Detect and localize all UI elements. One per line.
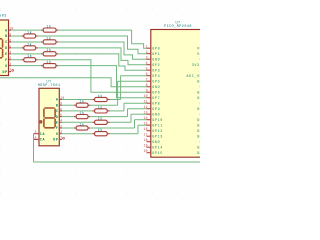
svg-text:GP5: GP5 <box>152 80 160 84</box>
U3 right pin 28 (GND, clipped) <box>200 113 208 117</box>
wire: vertical drop to pico pin 11 <box>123 103 125 111</box>
U3 right pin 23 (GND, clipped) <box>200 141 208 145</box>
U3 right pin 37 (3V3_EN, clipped) <box>192 64 208 68</box>
U3 right pin 21 (GP16, clipped) <box>197 152 208 156</box>
wire: into pico pin 13 <box>131 113 147 115</box>
U3 right pin 29 (GP22, clipped) <box>197 108 208 112</box>
U3 right pin 32 (GP27, clipped) <box>197 91 208 95</box>
U2 seven-segment digit graphic <box>40 108 55 128</box>
svg-text:GP8: GP8 <box>152 102 160 106</box>
U3 right pin 30 (RUN, clipped) <box>200 102 208 106</box>
svg-text:ADC_VREF: ADC_VREF <box>186 75 200 79</box>
svg-text:11: 11 <box>144 100 148 104</box>
wire: R to pico pin 9 (long drop) <box>38 60 147 92</box>
svg-text:6: 6 <box>146 72 148 76</box>
svg-text:1k: 1k <box>46 60 51 65</box>
U3 right pin 40 (VBUS, clipped) <box>197 47 208 51</box>
svg-text:G: G <box>56 132 59 136</box>
svg-text:PICO_RP2040: PICO_RP2040 <box>164 25 192 29</box>
U3 right pin 35 (ADC_VREF, clipped) <box>186 75 207 79</box>
svg-text:GP22: GP22 <box>197 108 200 112</box>
U2 pin F (pin 2) <box>56 124 62 130</box>
wire: R to pico pin 10 (long drop) <box>58 66 146 98</box>
U3 left pin 16 (GP12) <box>144 127 163 134</box>
wire: R to bend, segment b <box>110 121 132 123</box>
svg-text:CA: CA <box>40 138 45 142</box>
svg-text:GP16: GP16 <box>197 152 200 156</box>
svg-text:7: 7 <box>60 136 62 140</box>
svg-text:GP14: GP14 <box>152 146 163 150</box>
svg-text:DP: DP <box>53 138 58 142</box>
wire: R to pico pin 4 (zigzag) <box>38 48 147 65</box>
U3 left pin 12 (GP9) <box>144 105 161 112</box>
wire: U2 seg C to R, segment a <box>62 110 92 112</box>
resistor R3 (1k, segment C) <box>41 36 58 44</box>
resistor R10 (1k, segment D) <box>74 111 90 119</box>
U1 seven-segment digit graphic <box>0 39 3 58</box>
svg-text:1k: 1k <box>46 25 51 30</box>
U3 left pin 1 (GP0) <box>146 45 161 52</box>
wire: vertical drop to pico pin 15 <box>137 125 139 134</box>
U2 common-anode pin CA2 (pin 8) <box>34 136 46 142</box>
wire: R to pico pin 1 (zigzag) <box>58 30 146 48</box>
resistor R12 (1k, segment E) <box>92 117 109 125</box>
wire: U1 seg E to R, segment a <box>11 53 41 55</box>
svg-text:GP0: GP0 <box>152 47 160 51</box>
svg-text:GP13: GP13 <box>152 135 163 139</box>
U3 right pin 31 (GP26, clipped) <box>197 97 208 101</box>
wire: R to bend, segment b <box>110 99 121 101</box>
U3 right pin 33 (GND, clipped) <box>200 86 208 90</box>
svg-text:2: 2 <box>146 50 148 54</box>
svg-text:GP19: GP19 <box>197 130 200 134</box>
svg-text:1: 1 <box>146 45 148 49</box>
U3 right pin 39 (VSYS, clipped) <box>197 53 208 57</box>
wire: R to pico pin 3 (zigzag) <box>58 42 146 59</box>
wire: R to bend, segment b <box>90 104 117 106</box>
svg-text:1k: 1k <box>98 128 103 133</box>
wire: U2 seg A to R, segment a <box>62 99 92 101</box>
U1 pin DP (pin 7) <box>2 68 13 74</box>
svg-text:GP4: GP4 <box>152 75 160 79</box>
svg-text:3V3_EN: 3V3_EN <box>192 64 200 68</box>
U3 left pin 4 (GP2) <box>146 61 161 68</box>
U3 left pin 8 (GND) <box>146 83 161 90</box>
U3 left pin 14 (GP10) <box>144 116 163 123</box>
svg-text:E: E <box>5 52 8 56</box>
svg-text:10: 10 <box>144 94 148 98</box>
U2 pin DP (pin 7) <box>53 136 64 142</box>
resistor R2 (1k, segment B) <box>22 30 38 38</box>
resistor R3 (1k, segment D) <box>22 42 38 50</box>
U3 left pin 2 (GP1) <box>146 50 161 57</box>
svg-text:GP1: GP1 <box>152 53 160 57</box>
wire: U1 seg G to R, segment a <box>11 65 41 67</box>
svg-text:F: F <box>56 126 59 130</box>
U3 right pin 24 (GP18, clipped) <box>197 135 208 139</box>
wire: into pico pin 15 <box>138 124 147 126</box>
resistor R11 (1k, segment F) <box>74 122 90 130</box>
svg-text:13: 13 <box>144 111 148 115</box>
U3 right pin 38 (GND, clipped) <box>200 58 208 62</box>
svg-text:GP11: GP11 <box>152 124 163 128</box>
U1 pin G (pin 3) <box>5 62 11 68</box>
wire: into pico pin 14 <box>135 119 147 121</box>
resistor R10 (1k, segment C) <box>92 105 109 113</box>
svg-text:GP2: GP2 <box>152 64 160 68</box>
svg-text:GP7: GP7 <box>152 97 160 101</box>
U3 left pin 9 (GP6) <box>146 89 161 96</box>
svg-text:1k: 1k <box>27 30 32 35</box>
resistor R9 (1k, segment B) <box>74 100 90 108</box>
7-segment display U1 (HDSP-7503, clipped at left edge) <box>0 20 9 76</box>
U2 pin C (pin 8) <box>56 107 62 113</box>
svg-text:GP15: GP15 <box>152 152 163 156</box>
svg-text:5: 5 <box>146 67 148 71</box>
svg-text:GND: GND <box>152 58 160 62</box>
U2 common-anode pin CA1 (pin 3) <box>34 130 46 136</box>
U3 left pin 17 (GP13) <box>144 133 163 140</box>
wire: R to bend, segment b <box>90 127 134 129</box>
wire: vertical drop to pico pin 12 <box>127 109 129 117</box>
svg-text:1k: 1k <box>79 122 84 127</box>
resistor R7 (1k, segment G) <box>41 60 58 68</box>
svg-text:CA: CA <box>40 132 45 136</box>
wire: U1 seg B to R, segment a <box>11 35 21 37</box>
wire: U1 seg F to R, segment a <box>11 59 21 61</box>
U1 pin F (pin 2) <box>5 56 11 62</box>
U3 right pin 25 (GP19, clipped) <box>197 130 208 134</box>
U2 pin D (pin 5) <box>56 113 62 119</box>
svg-text:D: D <box>5 46 8 50</box>
U3 left pin 6 (GP4) <box>146 72 161 79</box>
wire: U1 seg A to R, segment a <box>11 29 41 31</box>
wire: U1 common cathode rail to pico GND pin 8 <box>0 78 147 87</box>
svg-text:GP12: GP12 <box>152 130 163 134</box>
U3 left pin 19 (GP14) <box>144 144 163 151</box>
svg-text:GP18: GP18 <box>197 135 200 139</box>
svg-text:E: E <box>56 121 59 125</box>
wire: into pico pin 12 <box>128 108 147 110</box>
svg-text:12: 12 <box>144 105 148 109</box>
U3 left pin 18 (GND) <box>144 138 161 145</box>
wire: U2 seg F to R, segment a <box>62 127 74 129</box>
svg-text:GP9: GP9 <box>152 108 160 112</box>
svg-text:3: 3 <box>146 56 148 60</box>
U2 pin G (pin 3) <box>56 130 62 136</box>
svg-text:1k: 1k <box>98 105 103 110</box>
wire: vertical drop to pico pin 6 <box>120 76 122 100</box>
svg-text:9: 9 <box>146 89 148 93</box>
svg-text:F: F <box>5 58 8 62</box>
svg-text:1k: 1k <box>98 117 103 122</box>
svg-text:GP27: GP27 <box>197 91 200 95</box>
resistor R4 (1k, segment F) <box>22 54 38 62</box>
wire: U2 seg G to R, segment a <box>62 133 92 135</box>
U2 pin E (pin 4) <box>56 119 62 125</box>
svg-text:1k: 1k <box>46 48 51 53</box>
resistor R14 (1k, segment G) <box>92 128 109 136</box>
svg-text:GP21: GP21 <box>197 119 200 123</box>
U1 pin B (pin 9) <box>5 32 11 38</box>
svg-text:19: 19 <box>144 144 148 148</box>
wire: R to bend, segment b <box>110 133 139 135</box>
svg-text:B: B <box>5 34 8 38</box>
svg-text:1k: 1k <box>27 54 32 59</box>
microcontroller module U3 (PICO_RP2040) <box>151 30 204 158</box>
svg-text:1k: 1k <box>46 36 51 41</box>
U2 pin B (pin 9) <box>56 102 62 108</box>
svg-text:1k: 1k <box>79 111 84 116</box>
svg-text:HDSP-7503: HDSP-7503 <box>0 14 7 18</box>
svg-text:1k: 1k <box>98 94 103 99</box>
wire: into pico pin 11 <box>124 102 147 104</box>
wire: vertical drop to pico pin 14 <box>134 120 136 128</box>
resistor R8 (1k, segment A) <box>92 94 109 102</box>
svg-text:A: A <box>5 28 8 32</box>
wire: R to bend, segment b <box>90 116 127 118</box>
wire: U2 seg B to R, segment a <box>62 104 74 106</box>
svg-text:A: A <box>56 98 59 102</box>
wire: into pico pin 7 <box>118 80 147 82</box>
wire: vertical drop to pico pin 7 <box>117 81 119 105</box>
U3 left pin 15 (GP11) <box>144 122 163 129</box>
svg-text:HDSP-7501: HDSP-7501 <box>38 84 61 88</box>
svg-text:GP6: GP6 <box>152 91 160 95</box>
U3 left pin 7 (GP5) <box>146 78 161 85</box>
U3 left pin 10 (GP7) <box>144 94 161 101</box>
wire: U2 common anode down <box>33 134 35 162</box>
svg-text:GP3: GP3 <box>152 69 160 73</box>
svg-text:18: 18 <box>144 138 148 142</box>
svg-text:17: 17 <box>144 133 148 137</box>
svg-text:7: 7 <box>146 78 148 82</box>
U2 pin A (pin 10) <box>56 96 64 102</box>
U1 pin A (pin 10) <box>5 27 13 33</box>
U3 left pin 5 (GP3) <box>146 67 161 74</box>
U1 pin C (pin 8) <box>5 38 11 44</box>
wire: bottom rail to right edge <box>34 161 201 163</box>
svg-text:8: 8 <box>146 83 148 87</box>
svg-text:GP26: GP26 <box>197 97 200 101</box>
svg-text:8: 8 <box>35 136 37 140</box>
svg-text:20: 20 <box>144 149 148 153</box>
wire: R to bend, segment b <box>110 110 125 112</box>
wire: U2 seg E to R, segment a <box>62 121 92 123</box>
U1 pin D (pin 5) <box>5 44 11 50</box>
resistor R1 (1k, segment A) <box>41 25 58 33</box>
wire: vertical drop to pico pin 13 <box>130 114 132 122</box>
svg-text:14: 14 <box>144 116 148 120</box>
svg-text:GND: GND <box>152 86 160 90</box>
svg-text:D: D <box>56 115 59 119</box>
wire: U1 seg D to R, segment a <box>11 47 21 49</box>
svg-text:G: G <box>5 64 8 68</box>
svg-text:C: C <box>56 109 59 113</box>
svg-text:4: 4 <box>146 61 148 65</box>
svg-text:GND: GND <box>152 113 160 117</box>
U3 left pin 11 (GP8) <box>144 100 161 107</box>
svg-text:C: C <box>5 40 8 44</box>
svg-text:3: 3 <box>35 130 37 134</box>
U3 right pin 36 (3V3, clipped) <box>200 69 208 73</box>
svg-text:1k: 1k <box>79 100 84 105</box>
svg-text:GP28: GP28 <box>197 80 200 84</box>
svg-text:1k: 1k <box>27 42 32 47</box>
U3 right pin 27 (GP21, clipped) <box>197 119 208 123</box>
wire: U2 seg D to R, segment a <box>62 116 74 118</box>
U3 right pin 22 (GP17, clipped) <box>197 146 208 150</box>
svg-text:GND: GND <box>152 141 160 145</box>
svg-text:B: B <box>56 103 59 107</box>
resistor R5 (1k, segment E) <box>41 48 58 56</box>
wire: R to pico pin 2 (zigzag) <box>38 36 147 54</box>
U3 left pin 3 (GND) <box>146 56 161 63</box>
svg-text:15: 15 <box>144 122 148 126</box>
svg-text:GP17: GP17 <box>197 146 200 150</box>
U3 right pin 26 (GP20, clipped) <box>197 124 208 128</box>
svg-text:VBUS: VBUS <box>197 47 200 51</box>
svg-text:16: 16 <box>144 127 148 131</box>
U1 pin E (pin 4) <box>5 50 11 56</box>
svg-text:7: 7 <box>9 68 11 72</box>
wire: R to pico pin 5 (zigzag) <box>58 54 146 70</box>
U3 right pin 34 (GP28, clipped) <box>197 80 208 84</box>
svg-text:GP20: GP20 <box>197 124 200 128</box>
svg-text:DP: DP <box>2 70 7 74</box>
7-segment display U2 (HDSP-7501) <box>39 88 59 146</box>
svg-text:GP10: GP10 <box>152 119 163 123</box>
U3 left pin 13 (GND) <box>144 111 161 118</box>
svg-text:VSYS: VSYS <box>197 53 200 57</box>
U3 left pin 20 (GP15) <box>144 149 163 156</box>
wire: U1 seg C to R, segment a <box>11 41 41 43</box>
wire: into pico pin 6 <box>121 75 147 77</box>
